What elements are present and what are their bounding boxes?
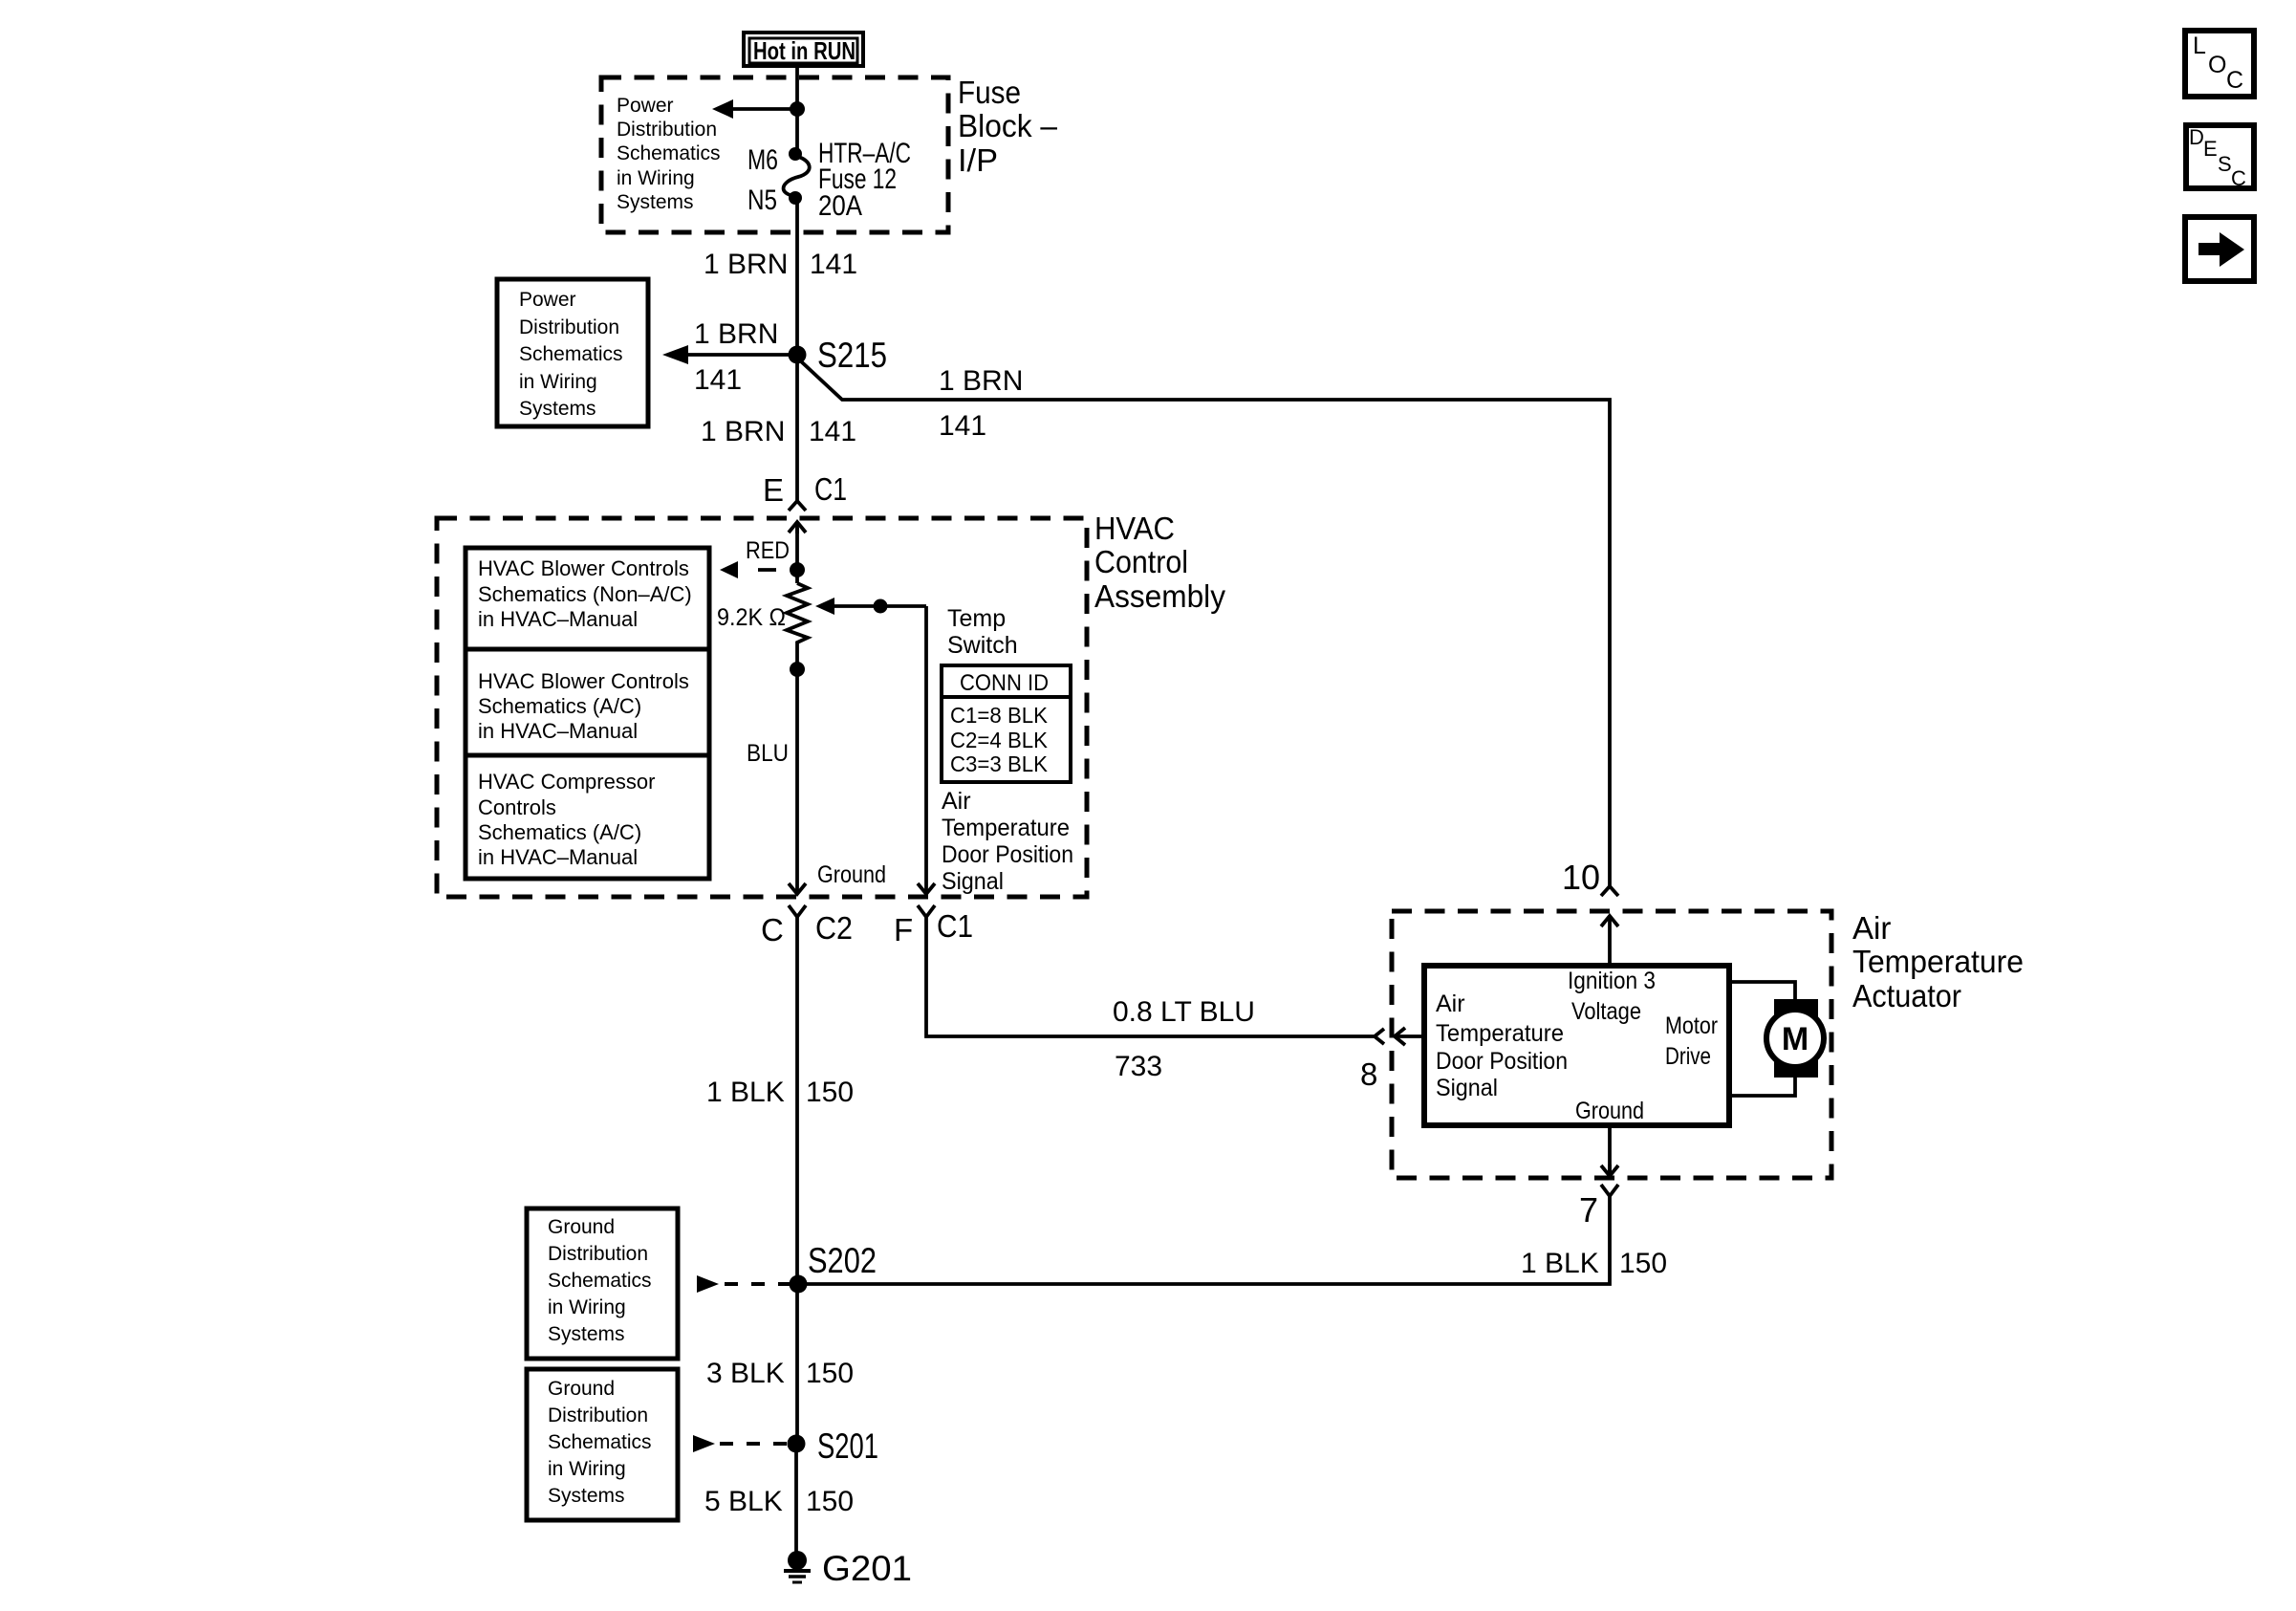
box: HVAC blower/compressor schematics references (3 sections): [466, 548, 709, 879]
svg-text:20A: 20A: [818, 190, 862, 222]
svg-text:Actuator: Actuator: [1852, 978, 1961, 1013]
wire: S215 branch to power distribution box (arrow left): [662, 345, 797, 364]
wire: 1 BRN 141 from S215 to air temperature actuator: [801, 361, 1610, 886]
svg-text:Motor: Motor: [1665, 1012, 1718, 1039]
svg-text:Air: Air: [1436, 991, 1465, 1017]
svg-text:in Wiring: in Wiring: [548, 1296, 626, 1318]
label: 5 BLK 150: [704, 1486, 854, 1517]
svg-text:Schematics (A/C): Schematics (A/C): [478, 820, 641, 844]
svg-text:Schematics (A/C): Schematics (A/C): [478, 694, 641, 718]
svg-text:BLU: BLU: [747, 740, 789, 767]
svg-text:Ground: Ground: [1575, 1098, 1644, 1124]
svg-text:3 BLK: 3 BLK: [706, 1358, 785, 1389]
icon: next arrow button: [2185, 217, 2254, 281]
svg-text:in Wiring: in Wiring: [617, 167, 695, 189]
svg-text:141: 141: [939, 410, 986, 442]
ground G201: [784, 1551, 811, 1582]
motor M: [1766, 999, 1824, 1078]
label: 1 BRN 141 (fuse to S215): [704, 249, 857, 280]
air temperature actuator dashed box: [1392, 911, 1831, 1178]
svg-text:C1: C1: [937, 908, 973, 944]
node: fuse block feed junction: [790, 101, 805, 117]
svg-text:1 BRN: 1 BRN: [694, 318, 778, 350]
svg-text:Schematics: Schematics: [519, 343, 623, 365]
svg-text:M: M: [1782, 1021, 1809, 1057]
svg-text:Temperature: Temperature: [942, 815, 1070, 841]
svg-text:1 BRN: 1 BRN: [704, 249, 788, 280]
svg-text:in Wiring: in Wiring: [519, 371, 597, 393]
icon: DESC button: [2186, 125, 2254, 190]
svg-text:I/P: I/P: [958, 142, 998, 178]
label: Temp Switch: [947, 605, 1018, 659]
connector symbol at actuator pin 7: arrow and fork: [1601, 1165, 1618, 1196]
svg-text:Distribution: Distribution: [519, 316, 619, 338]
svg-text:S: S: [2218, 152, 2232, 176]
svg-text:Controls: Controls: [478, 795, 556, 819]
svg-text:C1=8 BLK: C1=8 BLK: [950, 703, 1049, 728]
svg-text:Schematics: Schematics: [548, 1270, 652, 1292]
svg-text:Signal: Signal: [1436, 1075, 1498, 1101]
wiper: temp switch arrow into resistor: [815, 598, 926, 615]
svg-text:Schematics: Schematics: [617, 142, 721, 164]
wire: motor drive bottom: [1729, 1078, 1795, 1096]
svg-text:141: 141: [809, 416, 856, 447]
svg-text:HVAC Blower Controls: HVAC Blower Controls: [478, 669, 689, 693]
wire: 1 BRN 141 from fuse to S215: [795, 198, 799, 355]
svg-text:733: 733: [1115, 1051, 1162, 1082]
svg-text:in Wiring: in Wiring: [548, 1458, 626, 1480]
svg-text:in HVAC–Manual: in HVAC–Manual: [478, 845, 638, 869]
wire: Hot in RUN feed down to fuse: [795, 66, 799, 154]
label: Air Temperature Door Position Signal (actuator pin): [1436, 991, 1568, 1101]
svg-text:Assembly: Assembly: [1094, 578, 1225, 614]
svg-text:8: 8: [1360, 1056, 1377, 1092]
svg-text:Switch: Switch: [947, 632, 1018, 659]
svg-text:Air: Air: [942, 788, 971, 815]
svg-text:F: F: [894, 912, 913, 947]
svg-text:C2=4 BLK: C2=4 BLK: [950, 728, 1049, 752]
svg-text:C: C: [2226, 67, 2243, 94]
svg-text:10: 10: [1562, 858, 1600, 897]
wire: motor drive top: [1729, 982, 1795, 999]
connector symbol F/C1: arrow and fork at HVAC box bottom: [918, 880, 935, 917]
svg-text:Distribution: Distribution: [548, 1404, 648, 1426]
svg-text:D: D: [2189, 125, 2204, 149]
svg-text:C3=3 BLK: C3=3 BLK: [950, 751, 1049, 776]
svg-text:Door Position: Door Position: [942, 841, 1073, 868]
connector symbol C/C2: arrow and fork at HVAC box bottom: [789, 880, 806, 917]
svg-text:Voltage: Voltage: [1571, 998, 1641, 1025]
svg-text:C1: C1: [814, 471, 847, 507]
svg-text:Signal: Signal: [942, 868, 1004, 895]
svg-text:Power: Power: [617, 95, 674, 117]
svg-text:1 BLK: 1 BLK: [1521, 1248, 1599, 1279]
svg-text:Fuse: Fuse: [958, 75, 1021, 110]
svg-text:Air: Air: [1852, 910, 1891, 946]
svg-text:C2: C2: [815, 910, 853, 946]
label: 3 BLK 150: [706, 1358, 854, 1389]
svg-text:C: C: [2231, 166, 2246, 190]
wire: 0.8 LT BLU 733 from connector F to actuator pin 8: [926, 917, 1374, 1036]
svg-text:in HVAC–Manual: in HVAC–Manual: [478, 607, 638, 631]
svg-text:in HVAC–Manual: in HVAC–Manual: [478, 719, 638, 743]
wire: branch to power distribution schematics (arrow left): [712, 99, 797, 119]
wire: BLU resistor bottom to ground pin C: [795, 644, 799, 880]
svg-text:150: 150: [806, 1486, 854, 1517]
svg-text:Temperature: Temperature: [1852, 944, 2024, 979]
svg-text:E: E: [763, 472, 784, 508]
svg-text:G201: G201: [822, 1549, 912, 1588]
wire: RED dashed branch (arrow left): [720, 561, 776, 578]
fuse block I/P dashed box: [601, 77, 948, 232]
box: Power Distribution Schematics in Wiring Systems: [497, 279, 648, 426]
node: resistor bottom junction: [790, 662, 805, 677]
svg-text:O: O: [2208, 52, 2226, 78]
label: Fuse Block - I/P: [958, 75, 1058, 178]
wire: temp switch signal down to connector F: [924, 606, 928, 880]
svg-text:E: E: [2203, 137, 2218, 161]
svg-text:HVAC Blower Controls: HVAC Blower Controls: [478, 556, 689, 580]
svg-text:Schematics: Schematics: [548, 1431, 652, 1453]
svg-text:0.8 LT BLU: 0.8 LT BLU: [1113, 996, 1255, 1028]
svg-text:CONN ID: CONN ID: [960, 670, 1049, 696]
svg-text:150: 150: [806, 1077, 854, 1108]
label: Air Temperature Door Position Signal (HVAC pin): [942, 788, 1073, 895]
svg-text:1 BRN: 1 BRN: [939, 365, 1023, 397]
svg-text:Power: Power: [519, 289, 576, 311]
svg-text:Drive: Drive: [1665, 1043, 1711, 1070]
HVAC control assembly dashed box: [437, 518, 1087, 897]
wire: 1 BLK 150 from pin 7 down to S202 line: [798, 1196, 1610, 1284]
svg-text:1 BLK: 1 BLK: [706, 1077, 785, 1108]
wire: 1 BRN 141 from S215 down to HVAC connector: [795, 355, 799, 501]
label: 1 BLK 150 (C to S202): [706, 1077, 854, 1108]
wire: 3 BLK 150 from S202 to S201: [795, 1284, 799, 1444]
svg-text:Block –: Block –: [958, 108, 1058, 143]
label: Ignition 3 Voltage: [1568, 968, 1656, 1025]
node: RED branch junction: [790, 562, 805, 577]
connector symbol at actuator pin 8: fork and arrow: [1375, 1028, 1424, 1045]
svg-text:N5: N5: [747, 185, 777, 216]
wire: 1 BLK 150 from connector C down to S202: [795, 917, 799, 1284]
svg-text:C: C: [761, 912, 784, 947]
connector symbol at actuator pin 10: fork and arrow: [1601, 886, 1618, 966]
box: Ground Distribution Schematics in Wiring Systems (S201): [527, 1369, 678, 1520]
svg-text:150: 150: [1619, 1248, 1667, 1279]
label: Hot in RUN box: [744, 33, 863, 66]
icon: LOC button: [2185, 31, 2254, 97]
CONN ID table: [942, 665, 1071, 782]
svg-text:141: 141: [694, 364, 742, 396]
splice S215: [789, 346, 807, 364]
note: power distribution schematics reference (in fuse block): [617, 95, 721, 213]
svg-text:Temp: Temp: [947, 605, 1006, 632]
wire: dashed ground distribution branch into S202 (arrow right): [697, 1275, 791, 1293]
svg-text:Temperature: Temperature: [1436, 1020, 1564, 1047]
resistor 9.2K ohm: [787, 583, 808, 644]
svg-text:S215: S215: [817, 336, 887, 375]
svg-text:5 BLK: 5 BLK: [704, 1486, 783, 1517]
wire: 5 BLK 150 from S201 to G201: [794, 1444, 798, 1552]
svg-text:L: L: [2193, 33, 2206, 59]
svg-text:Distribution: Distribution: [617, 119, 717, 141]
box: Ground Distribution Schematics in Wiring Systems (S202): [527, 1208, 678, 1359]
svg-text:141: 141: [810, 249, 857, 280]
label: Motor Drive: [1665, 1012, 1718, 1070]
svg-text:Hot in RUN: Hot in RUN: [753, 36, 856, 65]
svg-text:7: 7: [1579, 1190, 1598, 1230]
box: air temperature actuator internal module: [1424, 966, 1729, 1125]
svg-text:Ground: Ground: [817, 861, 886, 888]
svg-text:Systems: Systems: [548, 1323, 625, 1345]
svg-text:150: 150: [806, 1358, 854, 1389]
svg-text:Control: Control: [1094, 544, 1188, 579]
svg-text:Systems: Systems: [519, 398, 596, 420]
svg-text:9.2K Ω: 9.2K Ω: [717, 604, 786, 631]
svg-text:Ground: Ground: [548, 1378, 615, 1400]
svg-text:Ignition 3: Ignition 3: [1568, 968, 1656, 994]
svg-text:Systems: Systems: [548, 1485, 625, 1507]
label: 1 BLK 150 (pin 7): [1521, 1248, 1667, 1279]
connector symbol E/C1: fork and arrow at HVAC box edge: [789, 501, 806, 533]
svg-text:S202: S202: [808, 1241, 877, 1280]
fuse F12 HTR-A/C 20A: [784, 147, 810, 205]
wire: junction to resistor top: [795, 528, 799, 583]
splice S202: [790, 1275, 808, 1294]
label: HVAC Control Assembly: [1094, 511, 1225, 614]
wire: dashed ground distribution branch into S201 (arrow right): [693, 1435, 787, 1452]
svg-text:1 BRN: 1 BRN: [701, 416, 785, 447]
svg-text:Door Position: Door Position: [1436, 1048, 1568, 1075]
svg-text:Systems: Systems: [617, 191, 694, 213]
label: Air Temperature Actuator: [1852, 910, 2024, 1013]
wire: actuator ground down to pin 7: [1608, 1125, 1612, 1176]
svg-text:Schematics (Non–A/C): Schematics (Non–A/C): [478, 582, 692, 606]
label: 1 BRN 141 (S215 to C1): [701, 416, 856, 447]
splice S201: [788, 1435, 806, 1453]
svg-text:S201: S201: [817, 1426, 878, 1466]
label: HTR-A/C Fuse 12 20A: [818, 138, 911, 222]
svg-text:HVAC: HVAC: [1094, 511, 1175, 546]
svg-text:RED: RED: [746, 537, 790, 564]
svg-text:Distribution: Distribution: [548, 1243, 648, 1265]
svg-text:Ground: Ground: [548, 1216, 615, 1238]
svg-text:M6: M6: [747, 144, 778, 176]
node: wiper line junction: [874, 599, 888, 614]
svg-text:HVAC Compressor: HVAC Compressor: [478, 770, 655, 794]
